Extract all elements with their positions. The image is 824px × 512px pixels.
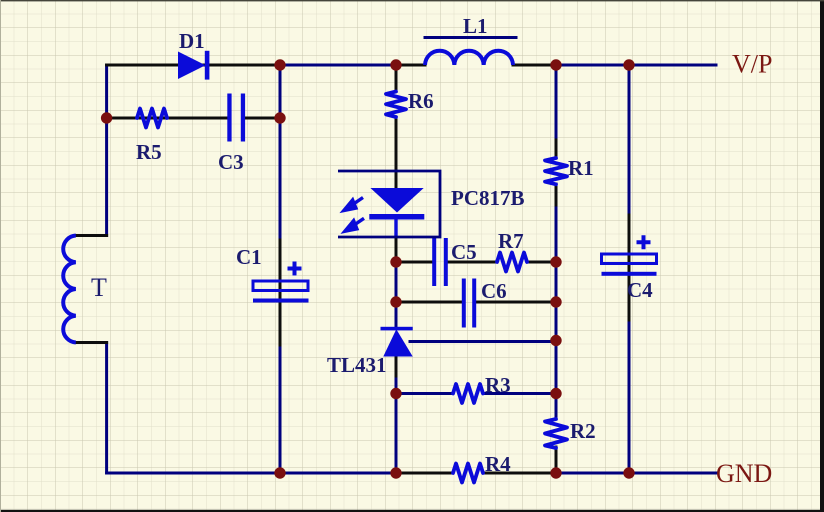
svg-text:C4: C4	[627, 278, 653, 302]
svg-text:R6: R6	[408, 89, 434, 113]
svg-text:T: T	[91, 273, 107, 302]
svg-text:C1: C1	[236, 245, 262, 269]
svg-text:C5: C5	[451, 240, 477, 264]
svg-text:C3: C3	[218, 150, 244, 174]
svg-text:L1: L1	[463, 14, 488, 38]
svg-text:TL431: TL431	[327, 353, 387, 377]
svg-text:R3: R3	[485, 373, 511, 397]
svg-text:R2: R2	[570, 419, 596, 443]
svg-text:D1: D1	[179, 29, 205, 53]
svg-text:V/P: V/P	[732, 50, 772, 79]
svg-text:R4: R4	[485, 452, 511, 476]
svg-text:C6: C6	[481, 279, 507, 303]
svg-text:PC817B: PC817B	[451, 186, 525, 210]
svg-text:R1: R1	[568, 156, 594, 180]
svg-text:R5: R5	[136, 140, 162, 164]
svg-text:GND: GND	[716, 459, 772, 488]
svg-text:R7: R7	[498, 229, 524, 253]
